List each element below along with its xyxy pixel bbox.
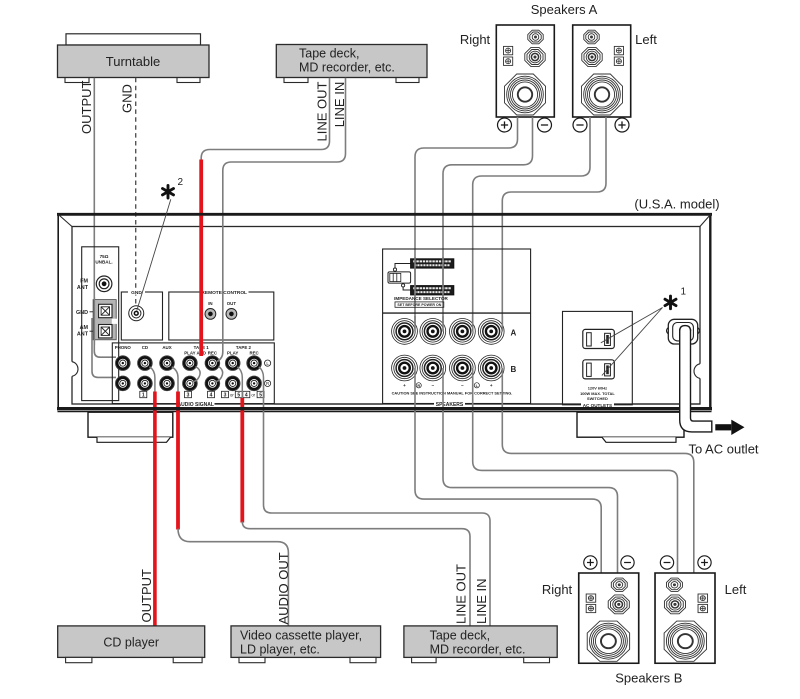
speaker B left	[655, 573, 715, 663]
label GND (turntable)	[120, 84, 135, 113]
svg-text:or: or	[230, 392, 234, 397]
svg-text:1: 1	[681, 287, 687, 298]
wire: red run to TAPE1 PLAY	[199, 160, 203, 218]
wire red CD player	[153, 392, 157, 627]
hook wire CD out	[150, 367, 155, 392]
caution text	[392, 390, 513, 395]
svg-text:IN: IN	[208, 301, 212, 306]
wire red AUX	[176, 392, 180, 530]
label FM ANT	[77, 279, 89, 291]
right panel notch	[694, 364, 701, 379]
svg-text:Tape deck,: Tape deck,	[299, 47, 359, 61]
svg-text:CD player: CD player	[103, 635, 159, 649]
svg-text:OUTPUT: OUTPUT	[79, 81, 94, 135]
speaker A terminals plus/minus	[498, 118, 630, 132]
hook wire TAPE2 PLAY	[237, 367, 242, 399]
label AM ANT	[77, 325, 93, 337]
impedance label plate top	[411, 259, 454, 268]
AC outlets box	[563, 311, 633, 407]
svg-text:IMPEDANCE SELECTOR: IMPEDANCE SELECTOR	[394, 296, 448, 301]
AC outlet 1	[583, 329, 615, 348]
svg-text:PLAY: PLAY	[227, 351, 238, 356]
svg-text:GND: GND	[131, 290, 142, 296]
wire: phono R branch	[92, 318, 116, 377]
wire: speaker A left +	[502, 117, 606, 331]
impedance selector pointer bottom	[402, 284, 411, 290]
video player feet	[239, 657, 376, 662]
svg-text:Speakers A: Speakers A	[531, 2, 598, 17]
antenna 75ohm label	[95, 254, 112, 265]
RCA jacks row R	[115, 376, 261, 391]
svg-text:GND: GND	[76, 310, 88, 316]
receiver bottom edge overlay	[57, 404, 712, 409]
binding posts row A	[392, 319, 517, 345]
svg-text:ANT: ANT	[77, 331, 89, 337]
svg-text:Left: Left	[725, 582, 747, 597]
label Left (speakers A)	[635, 32, 657, 47]
video player box	[231, 626, 381, 658]
tape deck (top) feet	[284, 78, 419, 83]
GND box	[121, 289, 162, 340]
svg-text:+: +	[490, 383, 493, 388]
turntable wire over antenna plate	[93, 297, 95, 345]
wire speaker B 3	[473, 368, 678, 574]
svg-text:GND: GND	[120, 84, 135, 113]
turntable feet	[65, 78, 200, 83]
wire speaker B 4	[502, 368, 694, 574]
svg-text:2: 2	[178, 177, 184, 188]
hook wire TAPE1 PLAY L to R	[192, 367, 200, 382]
svg-text:OUTPUT: OUTPUT	[139, 569, 154, 623]
impedance selector caption	[394, 296, 448, 307]
svg-text:TAPE 2: TAPE 2	[236, 345, 252, 350]
remote IN jack	[205, 301, 216, 319]
wire gray TAPE2 REC to tape LINE IN	[264, 385, 491, 627]
svg-text:ANT: ANT	[77, 285, 89, 291]
asterisk 2 pointer line	[137, 199, 171, 310]
wire speaker B 1	[415, 368, 601, 574]
svg-text:PHONO: PHONO	[115, 345, 132, 350]
cord top cap	[680, 326, 691, 331]
svg-text:R: R	[266, 381, 269, 386]
svg-text:120V 60Hz: 120V 60Hz	[588, 385, 607, 390]
To AC outlet label	[688, 442, 758, 457]
impedance label plate bottom	[411, 286, 454, 295]
receiver left foot	[88, 412, 173, 442]
svg-text:(U.S.A. model): (U.S.A. model)	[634, 197, 719, 212]
receiver inner panel	[58, 214, 711, 404]
label Left (speakers B)	[725, 582, 747, 597]
svg-text:MD recorder, etc.: MD recorder, etc.	[299, 61, 395, 75]
svg-text:REC: REC	[208, 351, 218, 356]
svg-text:Right: Right	[460, 32, 491, 47]
hook wire TAPE1 REC L to R	[215, 367, 223, 382]
tape deck (bottom) feet	[412, 657, 550, 662]
wire: speaker A right -	[443, 117, 533, 331]
svg-text:LINE OUT: LINE OUT	[315, 81, 330, 141]
CD player box	[58, 626, 205, 658]
GND screw terminal	[99, 304, 112, 317]
svg-text:UNBAL.: UNBAL.	[95, 260, 112, 265]
impedance selector pointer top	[393, 264, 410, 272]
svg-text:AUX: AUX	[162, 345, 171, 350]
svg-text:REC: REC	[249, 351, 259, 356]
svg-text:FM: FM	[80, 279, 88, 285]
label LINE IN (bottom tape deck)	[474, 578, 489, 624]
polarity marks under posts	[403, 383, 493, 388]
RCA jacks row L	[115, 356, 261, 371]
svg-text:REMOTE CONTROL: REMOTE CONTROL	[201, 290, 247, 296]
svg-text:−: −	[431, 383, 434, 388]
svg-text:PLAY: PLAY	[184, 351, 195, 356]
wire: tape LINE OUT gray top run	[201, 78, 329, 160]
svg-text:Turntable: Turntable	[106, 54, 160, 69]
wire: speaker A left -	[473, 117, 590, 331]
svg-text:3: 3	[224, 392, 227, 398]
label Right (speakers B)	[542, 582, 573, 597]
AC arrow	[715, 420, 744, 435]
antenna terminal plate	[93, 300, 117, 340]
svg-text:LINE OUT: LINE OUT	[454, 564, 469, 624]
svg-text:3: 3	[187, 392, 190, 398]
jack group labels	[115, 345, 260, 356]
svg-text:5: 5	[237, 392, 240, 398]
binding posts row B	[392, 355, 517, 381]
svg-text:+: +	[403, 383, 406, 388]
svg-text:OUT: OUT	[227, 301, 237, 306]
AC outlets text	[580, 385, 615, 401]
turntable lid	[66, 34, 201, 45]
label OUTPUT (turntable)	[79, 81, 94, 135]
label LINE IN (top tape deck)	[332, 82, 347, 128]
asterisk 1	[665, 287, 687, 309]
svg-text:4: 4	[210, 392, 213, 398]
svg-text:B: B	[511, 365, 517, 374]
CD player feet	[66, 657, 203, 662]
svg-text:SET BEFORE POWER ON: SET BEFORE POWER ON	[397, 303, 441, 307]
Speakers B title	[615, 671, 682, 686]
speaker A left	[573, 25, 631, 117]
svg-text:75Ω: 75Ω	[100, 254, 109, 259]
turntable box	[58, 45, 210, 78]
svg-text:Right: Right	[542, 582, 573, 597]
receiver outer chassis	[57, 214, 712, 410]
wire gray TAPE2 PLAY to tape LINE OUT	[242, 522, 470, 627]
L/R channel circles	[265, 360, 271, 387]
svg-text:Tape deck,: Tape deck,	[430, 628, 490, 642]
Speakers A title	[531, 2, 598, 17]
wire: tape LINE IN gray run to TAPE1 REC	[223, 78, 346, 217]
label LINE OUT (bottom tape deck)	[454, 564, 469, 624]
hook wire AUX out	[172, 367, 178, 392]
speaker B terminals	[584, 556, 711, 569]
svg-text:Speakers B: Speakers B	[615, 671, 682, 686]
asterisk 2	[163, 177, 184, 198]
label LINE OUT (top tape deck)	[315, 81, 330, 141]
svg-text:4: 4	[245, 392, 248, 398]
speakers divider line	[383, 312, 531, 314]
speaker B right	[579, 573, 639, 663]
remote OUT jack	[226, 301, 237, 319]
svg-text:To AC outlet: To AC outlet	[688, 442, 758, 457]
FM coax jack	[96, 276, 112, 292]
wire: speaker A right +	[415, 117, 518, 331]
wire gray continuation to TAPE1 REC	[217, 216, 223, 362]
chassis bottom thin line	[58, 411, 712, 413]
label GND terminal	[76, 310, 93, 316]
left panel notch	[71, 362, 78, 377]
svg-text:A: A	[511, 328, 517, 337]
svg-text:SWITCHED: SWITCHED	[587, 396, 608, 401]
receiver right foot	[577, 412, 684, 442]
svg-text:Video cassette player,: Video cassette player,	[240, 628, 362, 642]
svg-text:100W MAX. TOTAL: 100W MAX. TOTAL	[580, 391, 615, 396]
svg-text:or: or	[251, 392, 255, 397]
tape deck (top) box	[276, 45, 427, 78]
power cord	[680, 330, 712, 432]
wire: turntable GND dashed	[135, 78, 137, 307]
svg-text:Left: Left	[635, 32, 657, 47]
number tags	[140, 391, 264, 398]
svg-text:−: −	[461, 383, 464, 388]
svg-text:LINE IN: LINE IN	[474, 578, 489, 624]
svg-text:R: R	[417, 384, 420, 388]
speaker A right	[496, 25, 554, 117]
impedance selector switch	[388, 272, 411, 283]
svg-text:CD: CD	[142, 345, 148, 350]
AC outlet 2	[583, 360, 615, 379]
GND thumbscrew	[129, 306, 144, 321]
svg-text:MD recorder, etc.: MD recorder, etc.	[430, 642, 526, 656]
wire: turntable OUTPUT to PHONO L	[94, 78, 116, 357]
AUDIO SIGNAL box	[112, 343, 274, 408]
label Right (speakers A)	[460, 32, 491, 47]
svg-text:AM: AM	[80, 325, 89, 331]
SPEAKERS section box	[383, 249, 531, 408]
wire red run continuation to TAPE1 PLAY	[199, 216, 203, 356]
svg-text:AUDIO OUT: AUDIO OUT	[276, 552, 291, 624]
wire speaker B 2	[443, 368, 618, 574]
REMOTE CONTROL box	[169, 289, 274, 340]
asterisk 1 pointer lines	[601, 308, 663, 376]
svg-text:LD player, etc.: LD player, etc.	[240, 642, 320, 656]
svg-text:1: 1	[142, 392, 145, 398]
power cord strain relief	[667, 319, 700, 344]
hook wire TAPE2 REC	[259, 367, 264, 385]
tape deck (bottom) box	[404, 626, 557, 658]
(U.S.A. model) label	[634, 197, 719, 212]
antenna section box	[82, 247, 119, 401]
wire gray AUX to video player	[178, 529, 288, 627]
AM screw terminal	[99, 325, 112, 338]
label OUTPUT (CD player)	[139, 569, 154, 623]
label AUDIO OUT (video player)	[276, 552, 291, 624]
wire red TAPE2 PLAY	[240, 398, 244, 523]
svg-text:CAUTION SEE INSTRUCTION MANUA: CAUTION SEE INSTRUCTION MANUAL FOR CORRE…	[392, 390, 513, 395]
svg-text:5: 5	[259, 392, 262, 398]
wire overlays over A posts	[415, 257, 502, 332]
